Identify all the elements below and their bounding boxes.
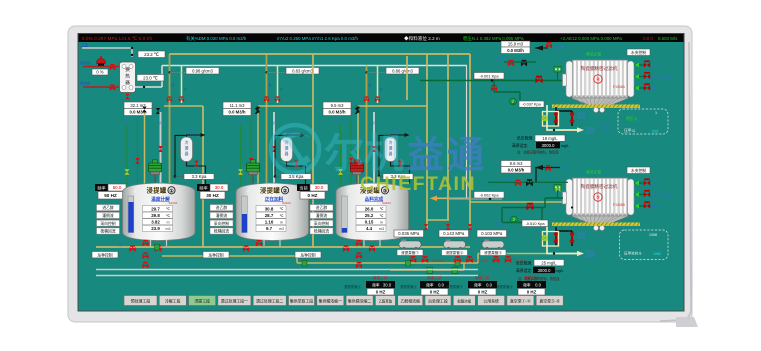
condenser bypass line	[175, 135, 186, 176]
pump speed box	[92, 69, 108, 75]
svg-text:公用系统: 公用系统	[483, 298, 499, 303]
small valve black	[521, 60, 527, 66]
olive drop 2	[266, 54, 268, 186]
volume box 32.1	[124, 102, 152, 109]
svg-text:频率: 频率	[199, 184, 207, 191]
tank outlet stub b	[166, 240, 168, 247]
svg-text:出水同: 出水同	[586, 253, 595, 258]
junction	[174, 175, 177, 178]
svg-text:浸提泵管②: 浸提泵管②	[446, 284, 464, 289]
right valve 2	[634, 76, 644, 78]
green inline unit 1	[427, 268, 433, 274]
nav button 浸提工段	[189, 296, 216, 306]
svg-text:水: 水	[601, 129, 604, 133]
extraction pump 3	[482, 240, 504, 251]
yellow elbow t1	[164, 105, 203, 107]
svg-text:0.0: 0.0	[486, 282, 492, 287]
svg-text:☼: ☼	[133, 189, 138, 195]
svg-text:进水口: 进水口	[577, 115, 586, 119]
pump inlet valve 1	[424, 224, 428, 230]
svg-text:梳桶回流: 梳桶回流	[314, 229, 329, 234]
svg-text:23.0 ℃: 23.0 ℃	[143, 75, 158, 80]
valve drop 2a	[264, 96, 269, 102]
svg-text:1398: 1398	[649, 233, 657, 237]
svg-text:高停设定:: 高停设定:	[516, 268, 532, 273]
svg-text:②: ②	[283, 189, 288, 195]
svg-text:进乙醇: 进乙醇	[102, 205, 114, 210]
tank value table	[256, 206, 286, 212]
svg-text:☼: ☼	[246, 189, 251, 195]
svg-text:丛种控制: 丛种控制	[300, 252, 315, 257]
svg-text:3.82: 3.82	[151, 220, 160, 225]
olive drop 1	[169, 54, 171, 186]
svg-text:0 HZ: 0 HZ	[478, 289, 488, 294]
svg-text:-0.002 Kpa: -0.002 Kpa	[479, 192, 499, 197]
svg-text:头伟园木过滤: 头伟园木过滤	[652, 192, 672, 197]
frequency HZ box	[300, 192, 325, 200]
svg-text:益: 益	[407, 135, 444, 176]
svg-text:反: 反	[136, 116, 139, 120]
HZ box	[469, 289, 496, 296]
bottom valve 1	[243, 245, 249, 251]
yellow elbow t3	[358, 105, 427, 107]
condenser outlet pipe	[287, 162, 306, 185]
svg-text:浸提泵管②: 浸提泵管②	[344, 284, 362, 289]
yellow bottom branch	[162, 255, 297, 257]
dashed panel filter2	[620, 230, 669, 260]
tank value table	[143, 206, 173, 212]
yellow pump suction line	[390, 269, 464, 271]
pressure box -0.510	[522, 220, 548, 227]
svg-text:0.0 M3/h: 0.0 M3/h	[229, 110, 246, 115]
nav button 公用系统	[478, 296, 505, 306]
svg-text:⑤: ⑤	[596, 195, 601, 201]
svg-text:☼: ☼	[346, 189, 351, 195]
svg-text:0 HZ: 0 HZ	[527, 289, 537, 294]
svg-text:0.0% 0.297 MPa 141.6 ℃: 0.0% 0.297 MPa 141.6 ℃ 0.0 t/h	[82, 36, 153, 41]
backwash cluster y=227	[556, 227, 572, 231]
svg-text:负压检测:: 负压检测:	[516, 261, 532, 266]
condenser capsule	[181, 137, 193, 162]
drain line with arrow	[547, 105, 577, 130]
makeup valve b	[545, 165, 551, 171]
riser valve B	[272, 146, 277, 152]
green feed line filter1	[420, 80, 563, 82]
svg-text:29.7: 29.7	[151, 206, 160, 211]
valve hot-return	[110, 64, 116, 70]
green inline unit 4	[455, 261, 460, 267]
nav button 预处理工段	[124, 296, 157, 306]
svg-text:m: m	[167, 220, 170, 224]
vent pipe with arrow	[287, 135, 301, 137]
svg-text:陶瓷膜精密过滤机: 陶瓷膜精密过滤机	[581, 65, 618, 72]
svg-text:0.0 M3/h: 0.0 M3/h	[507, 48, 524, 53]
svg-text:得压斗: 得压斗	[626, 116, 638, 121]
valve drop 1b	[179, 96, 184, 102]
nav button 透过处理工段二	[253, 296, 286, 306]
riser valve B	[158, 146, 163, 152]
pipe into exchanger top	[131, 48, 133, 57]
riser gray wide	[160, 112, 162, 186]
agitator motor	[247, 160, 260, 184]
svg-text:0.0: 0.0	[438, 282, 444, 287]
pressure box 0.143	[439, 230, 469, 237]
screen dark edge	[78, 33, 685, 312]
pressure box -0.037	[519, 101, 544, 107]
junction	[265, 71, 267, 73]
volume box 11.1	[223, 102, 251, 109]
green inline unit 2	[452, 268, 458, 274]
svg-text:丛种控制: 丛种控制	[208, 252, 223, 257]
green riser b	[541, 208, 543, 223]
yellow return line	[437, 197, 470, 199]
volume box 15.9	[501, 41, 530, 47]
bezel shadow right edge	[660, 42, 691, 321]
svg-text:注：浓度高限停进料，恢复连: 注：浓度高限停进料，恢复连	[518, 276, 560, 281]
lime cross valve	[542, 235, 548, 241]
condenser outlet pipe	[391, 162, 410, 185]
svg-text:3.3 Kpa: 3.3 Kpa	[192, 174, 207, 179]
svg-text:乙5: 乙5	[162, 243, 167, 247]
svg-text:S2204: S2204	[282, 201, 291, 205]
outlet pipe	[135, 86, 162, 88]
svg-text:0.0: 0.0	[535, 282, 541, 287]
svg-text:头伟园木过滤: 头伟园木过滤	[652, 74, 672, 79]
svg-text:器: 器	[185, 152, 189, 156]
frequency label box	[297, 184, 310, 191]
svg-text:有关%DM 0.020 MPa 0.0 m3/h: 有关%DM 0.020 MPa 0.0 m3/h	[186, 35, 247, 42]
svg-text:11.1 m3: 11.1 m3	[230, 103, 245, 108]
green low b	[502, 222, 542, 224]
backwash valve	[554, 113, 558, 115]
box 丛种控制	[92, 252, 118, 258]
density box 0.83	[286, 68, 319, 75]
flow box	[501, 47, 530, 54]
flow box	[501, 167, 531, 174]
pump outlet valve b	[466, 256, 472, 263]
lime cross valve on green riser	[338, 169, 343, 175]
yellow elbow t2	[258, 105, 313, 107]
small valve black b	[526, 179, 533, 186]
condenser outlet valve	[398, 161, 402, 167]
svg-text:50 HZ: 50 HZ	[104, 193, 117, 198]
green drop b	[501, 208, 503, 223]
tank outlet stub a	[263, 240, 265, 247]
frequency value box	[108, 184, 126, 191]
pressure box Kpa	[281, 174, 311, 180]
svg-text:灌倒流: 灌倒流	[316, 213, 328, 218]
svg-text:30 HZ: 30 HZ	[206, 193, 219, 198]
svg-text:0 HZ: 0 HZ	[308, 193, 318, 198]
backwash valve	[554, 233, 558, 235]
svg-text:反: 反	[349, 116, 352, 120]
bottom valve 5	[356, 262, 362, 268]
svg-text:佳水回: 佳水回	[80, 60, 91, 65]
svg-text:3000.0: 3000.0	[542, 143, 555, 148]
mg box 25	[534, 260, 564, 266]
svg-text:竹: 竹	[369, 83, 372, 87]
svg-text:鲜酮浓缩: 鲜酮浓缩	[458, 298, 472, 303]
svg-text:器: 器	[285, 152, 289, 156]
svg-text:收: 收	[606, 127, 609, 131]
svg-text:进乙醇: 进乙醇	[316, 205, 328, 210]
svg-text:m3: m3	[166, 227, 171, 231]
condenser capsule	[385, 137, 397, 162]
svg-text:采向控制: 采向控制	[314, 221, 329, 226]
svg-text:播保工站: 播保工站	[475, 275, 490, 280]
pipe top feed	[82, 47, 132, 49]
svg-text:反: 反	[249, 116, 252, 120]
svg-text:凝: 凝	[185, 146, 189, 151]
svg-text:采向控制: 采向控制	[100, 221, 115, 226]
feed valve filter2	[526, 203, 533, 211]
nav button 冷解工段	[159, 296, 186, 306]
svg-text:+2,AE12 0.000 MPa 0.000 MP: +2,AE12 0.000 MPa 0.000 MPa	[560, 36, 622, 41]
svg-text:0.8 0: 0.8 0	[643, 36, 653, 41]
pump inlet valve 2	[446, 224, 450, 230]
backwash cluster y=107	[556, 107, 572, 111]
bottom valve 2	[356, 240, 362, 246]
svg-text:佳水供: 佳水供	[80, 81, 91, 86]
nav button 集供精浓缩二	[346, 296, 373, 306]
svg-text:浸提泵管①: 浸提泵管①	[401, 250, 419, 255]
svg-text:频率: 频率	[474, 282, 482, 287]
svg-text:-0.001 Kpa: -0.001 Kpa	[479, 73, 499, 78]
svg-text:头伟: 头伟	[652, 181, 658, 186]
valve drop 1a	[167, 96, 172, 102]
density box 0.86	[386, 68, 419, 75]
pump inlet valve 3	[468, 224, 472, 230]
support bar	[552, 223, 640, 226]
top status bar	[79, 34, 684, 42]
svg-text:白: 白	[125, 119, 128, 123]
svg-text:灌倒流: 灌倒流	[102, 213, 114, 218]
svg-text:真空泵①-④: 真空泵①-④	[510, 298, 531, 303]
svg-text:蒸浓止管: 蒸浓止管	[586, 52, 601, 57]
small green line	[504, 61, 536, 63]
svg-text:29.8: 29.8	[151, 213, 160, 218]
green marker t1	[155, 245, 160, 251]
svg-text:负压检测:: 负压检测:	[517, 136, 533, 141]
svg-text:0 HZ: 0 HZ	[430, 289, 440, 294]
olive drop 3	[366, 66, 368, 187]
svg-text:28.7: 28.7	[265, 213, 274, 218]
riser valve B	[372, 146, 377, 152]
svg-text:压甲浓时斗: 压甲浓时斗	[624, 251, 642, 256]
lime cross valve on green riser	[238, 169, 243, 175]
nav button 乙醇相浓缩	[398, 296, 423, 306]
junction	[489, 198, 491, 200]
svg-text:频率: 频率	[97, 184, 105, 191]
svg-text:白: 白	[338, 119, 341, 123]
svg-text:当前: 当前	[299, 184, 307, 191]
condenser bypass line	[275, 135, 286, 176]
red dosing pump	[97, 56, 106, 66]
HZ box	[518, 289, 545, 296]
svg-text:mg/L: mg/L	[556, 269, 564, 273]
junction	[553, 252, 555, 254]
svg-text:浸提工段: 浸提工段	[194, 298, 210, 303]
svg-text:集供精浓缩二: 集供精浓缩二	[348, 298, 371, 303]
svg-text:F1306A: F1306A	[613, 85, 626, 89]
svg-text:m3: m3	[279, 227, 284, 231]
pale drop 2	[277, 66, 279, 104]
black valve	[355, 108, 360, 114]
monitor bezel	[68, 26, 692, 322]
junction	[131, 54, 133, 56]
riser yellow	[257, 113, 259, 186]
circulation pump P1	[510, 98, 517, 105]
svg-text:蒸浓止管: 蒸浓止管	[586, 170, 601, 175]
svg-text:30.8: 30.8	[265, 206, 274, 211]
valve drop 2b	[275, 96, 280, 102]
svg-text:3000.0: 3000.0	[538, 268, 551, 273]
svg-text:人豆木: 人豆木	[502, 178, 511, 182]
riser green 1	[240, 125, 242, 186]
volume box 9.5	[323, 102, 351, 109]
junction	[378, 175, 381, 178]
svg-text:温度计解: 温度计解	[151, 196, 170, 203]
dashed panel filter1	[618, 109, 668, 134]
pump outlet valve b	[422, 256, 428, 263]
pressure box -0.001	[474, 73, 504, 80]
svg-text:梳桶回流: 梳桶回流	[214, 229, 229, 234]
agitator motor	[149, 160, 162, 184]
lime cross valve	[542, 115, 548, 121]
svg-text:25.2: 25.2	[365, 213, 374, 218]
main distribution pipe	[162, 65, 467, 67]
svg-text:进乙醇: 进乙醇	[216, 205, 228, 210]
svg-text:梳桶回流: 梳桶回流	[100, 229, 115, 234]
volume box 9.6	[501, 161, 531, 167]
tank side labels	[210, 205, 233, 211]
makeup water valve	[546, 42, 552, 48]
svg-text:F1204A: F1204A	[432, 259, 444, 263]
svg-text:竹: 竹	[269, 83, 272, 87]
svg-text:23.2 ℃: 23.2 ℃	[144, 52, 159, 57]
svg-text:F1204B: F1204B	[477, 259, 488, 263]
nav button 真空泵⑤-⑧	[536, 296, 563, 306]
bottom valve 1	[343, 245, 349, 251]
svg-text:集供萃取工段: 集供萃取工段	[290, 298, 313, 303]
frequency label box	[95, 184, 108, 191]
green marker 2	[406, 261, 411, 267]
green elbow	[519, 92, 521, 100]
small valve	[515, 180, 521, 186]
yellow main drop 2	[312, 54, 314, 247]
riser valve A	[249, 158, 254, 164]
junction	[131, 47, 133, 49]
lime fitting	[556, 187, 561, 192]
tank side labels	[310, 205, 333, 211]
svg-text:频率: 频率	[426, 282, 434, 287]
extraction pump 1	[399, 240, 421, 251]
condenser outlet valve	[194, 161, 198, 167]
svg-text:◆和料液位 2.2 m: ◆和料液位 2.2 m	[404, 35, 440, 42]
tank outlet stub b	[279, 240, 281, 247]
riser green 2	[137, 116, 139, 186]
riser gray wide	[373, 112, 375, 186]
svg-text:浸提泵管②: 浸提泵管②	[400, 284, 418, 289]
junction	[143, 86, 145, 88]
backwash cream frame	[543, 232, 559, 247]
svg-text:1: 1	[655, 111, 657, 115]
level bar	[242, 196, 248, 233]
riser green 2	[350, 116, 352, 186]
svg-text:0 %: 0 %	[96, 70, 103, 75]
svg-text:消防水: 消防水	[496, 56, 506, 61]
junction	[168, 71, 170, 73]
yellow riser	[477, 254, 479, 264]
bottom valve 1	[129, 245, 135, 251]
pressure box 0.036	[394, 230, 424, 237]
svg-text:醇: 醇	[272, 121, 275, 125]
svg-text:醇: 醇	[372, 121, 375, 125]
svg-text:S2204: S2204	[382, 201, 391, 205]
svg-text:乙5: 乙5	[262, 243, 267, 247]
pump outlet valve a	[410, 256, 416, 263]
pump label	[480, 250, 506, 256]
svg-text:0.15: 0.15	[365, 220, 374, 225]
svg-text:9.7: 9.7	[266, 226, 273, 231]
flow box	[323, 109, 351, 116]
svg-text:1.16: 1.16	[265, 220, 274, 225]
agitator motor	[351, 160, 364, 184]
svg-text:0.143 MPa: 0.143 MPa	[443, 231, 465, 236]
frequency HZ box	[200, 192, 225, 200]
svg-text:水夹控制: 水夹控制	[631, 50, 646, 55]
svg-text:压甲斗: 压甲斗	[624, 128, 636, 133]
right valve 2	[634, 194, 644, 196]
thin line	[448, 198, 502, 200]
yellow branch elbow	[296, 256, 298, 263]
svg-text:换: 换	[125, 66, 130, 73]
svg-text:浸提泵管②: 浸提泵管②	[496, 284, 514, 289]
junction	[571, 206, 573, 208]
condenser capsule	[281, 137, 293, 162]
ceramic membrane filter F1306A	[563, 60, 635, 113]
svg-text:0.98 g/cm3: 0.98 g/cm3	[192, 68, 213, 73]
feed line with arrow	[536, 168, 560, 183]
svg-text:采向控制: 采向控制	[214, 221, 229, 226]
pressure box Kpa	[383, 174, 413, 180]
nav button 乙醇萃取	[375, 296, 395, 306]
tank outlet stub b	[379, 240, 381, 247]
condenser outlet valve	[294, 161, 298, 167]
box 水夹控制	[627, 167, 650, 174]
svg-text:注：浓度高限停进料，恢复连: 注：浓度高限停进料，恢复连	[517, 150, 559, 155]
long drop pipe right	[466, 66, 468, 200]
svg-text:热: 热	[125, 73, 130, 80]
nav button 集供萃取工段	[289, 296, 315, 306]
svg-text:3.2二醇: 3.2二醇	[186, 128, 196, 133]
svg-text:陶瓷膜精密过滤机: 陶瓷膜精密过滤机	[581, 183, 618, 190]
box 丛种控制	[203, 252, 229, 258]
condenser outlet pipe	[187, 162, 206, 185]
nav button 透过处理工段一	[218, 296, 251, 306]
svg-text:乙醇萃取: 乙醇萃取	[379, 298, 393, 303]
green drop	[493, 81, 495, 93]
svg-text:9.6 m3: 9.6 m3	[510, 161, 523, 166]
nav button 集供精浓缩一	[317, 296, 344, 306]
riser valve A	[135, 158, 140, 164]
vent pipe with arrow	[391, 135, 405, 137]
black valve on riser	[256, 107, 260, 113]
setpoint box 3000	[536, 142, 560, 148]
svg-text:浸提泵管②: 浸提泵管②	[446, 250, 464, 255]
svg-text:0.036 MPa: 0.036 MPa	[398, 231, 420, 236]
svg-text:50.0: 50.0	[113, 185, 122, 190]
